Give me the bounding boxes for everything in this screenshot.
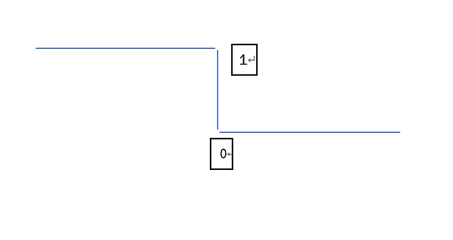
label text "1": [240, 54, 247, 64]
paragraph return mark in box 1: [248, 56, 255, 63]
label text "0": [221, 149, 226, 158]
wire: logic-low level segment: [219, 131, 400, 133]
wire: logic-high level segment: [36, 47, 216, 49]
label box node 1: [232, 45, 257, 76]
label box node 0: [211, 139, 233, 170]
paragraph return mark in box 0 (clipped by border): [227, 152, 233, 156]
wire: falling edge (vertical segment): [217, 50, 219, 130]
